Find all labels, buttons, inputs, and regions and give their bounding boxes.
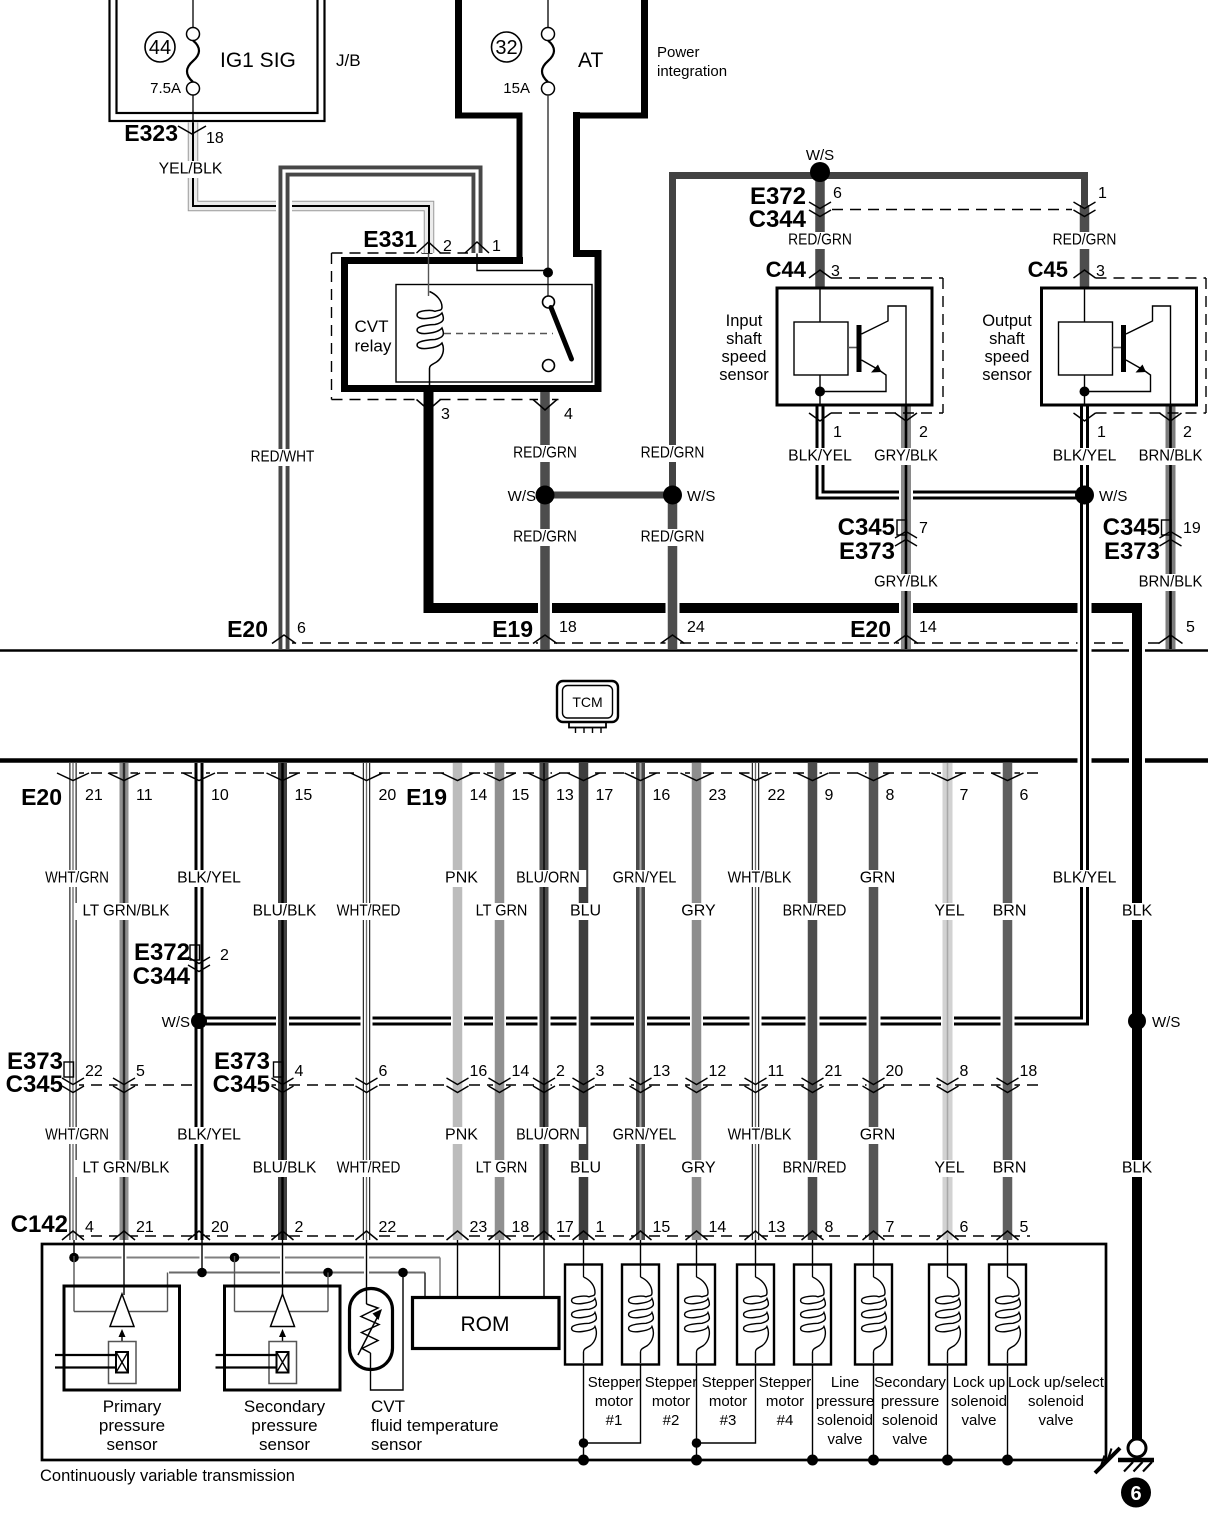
svg-text:7: 7 xyxy=(886,1219,895,1236)
wire YEL to lockup solenoid xyxy=(945,1240,950,1266)
wire label BLU (lower) xyxy=(567,1160,604,1177)
svg-text:8: 8 xyxy=(825,1219,834,1236)
node gnd stepper34 xyxy=(691,1455,702,1466)
wire label GRY (lower) xyxy=(680,1160,717,1177)
svg-text:WHT/BLK: WHT/BLK xyxy=(728,870,792,887)
svg-text:valve: valve xyxy=(1038,1412,1073,1429)
svg-text:BLK/YEL: BLK/YEL xyxy=(1053,448,1117,465)
wire label PNK (upper) xyxy=(443,870,480,887)
svg-text:YEL/BLK: YEL/BLK xyxy=(159,161,223,178)
stepper motor #2 coil xyxy=(622,1265,659,1365)
C142 pin 21 xyxy=(113,1231,135,1240)
node stepper34 xyxy=(692,1438,702,1448)
C142 pin 1 xyxy=(573,1231,595,1240)
wire label WHT/GRN (lower) xyxy=(39,1127,115,1144)
wire label LT GRN/BLK (lower) xyxy=(75,1160,178,1177)
wire BLU/BLK TCM 15 to C142 2 xyxy=(276,763,289,1240)
connector row E20/E19 dashed line (top section) xyxy=(284,642,1170,644)
E373/C345 row pin 14 xyxy=(489,1078,511,1085)
wire YEL/BLK E323 to E331 pin2 xyxy=(193,123,429,254)
svg-text:Power: Power xyxy=(657,44,700,61)
svg-text:E20: E20 xyxy=(21,784,62,810)
svg-text:#1: #1 xyxy=(606,1412,623,1429)
E20/E19 lower row pin 21 xyxy=(57,773,89,781)
wire BRN/RED to line pressure solenoid xyxy=(810,1240,815,1266)
wire WHT/GRN TCM 21 to C142 4 xyxy=(67,763,79,1240)
wire label GRN (upper) xyxy=(859,870,896,887)
wire label WHT/BLK (upper) xyxy=(721,870,797,887)
svg-text:21: 21 xyxy=(85,787,103,804)
svg-text:BLU: BLU xyxy=(570,1160,601,1177)
svg-text:sensor: sensor xyxy=(106,1435,157,1454)
wire WHT/BLK to stepper4 xyxy=(753,1240,758,1266)
wire label BLU/BLK (lower) xyxy=(246,1160,322,1177)
wire BLK/YEL TCM 10 to C142 20 xyxy=(192,763,206,1240)
speed sensor C45 dashed connector box xyxy=(1096,277,1207,279)
wire label WHT/RED (lower) xyxy=(330,1160,406,1177)
node gnd line pressure xyxy=(807,1455,818,1466)
svg-text:Secondary: Secondary xyxy=(244,1397,326,1416)
svg-text:W/S: W/S xyxy=(162,1014,190,1031)
E20/E19 lower row pin 15 xyxy=(484,773,516,781)
svg-text:Output: Output xyxy=(982,312,1032,330)
wire GRN/YEL TCM 16 to C142 15 xyxy=(634,763,647,1240)
stepper2 ground wire xyxy=(584,1364,641,1443)
wire label GRN/YEL (lower) xyxy=(606,1127,682,1144)
svg-text:3: 3 xyxy=(1096,263,1105,280)
wire BRN/RED TCM 9 to C142 8 xyxy=(806,763,820,1240)
CVT relay connector E331 dashed box xyxy=(331,253,333,400)
svg-text:E372: E372 xyxy=(134,939,190,966)
C142 pin 14 xyxy=(686,1231,708,1240)
E331 pin 3 xyxy=(417,400,441,411)
svg-text:C345: C345 xyxy=(6,1071,63,1098)
wire WHT/RED to temp sensor xyxy=(364,1240,369,1304)
wire label BRN/RED (lower) xyxy=(776,1160,852,1177)
E331 pin 1 xyxy=(465,242,489,253)
svg-text:W/S: W/S xyxy=(508,488,536,505)
svg-text:14: 14 xyxy=(512,1063,530,1080)
svg-text:ROM: ROM xyxy=(461,1313,510,1336)
svg-text:18: 18 xyxy=(512,1219,530,1236)
svg-text:12: 12 xyxy=(709,1063,727,1080)
svg-text:Stepper: Stepper xyxy=(759,1374,812,1391)
wire label YEL (lower) xyxy=(931,1160,968,1177)
CVT relay inner box xyxy=(396,285,592,383)
ground symbol G6 xyxy=(1128,1439,1146,1457)
svg-text:Primary: Primary xyxy=(103,1397,162,1416)
fuse 32 circle xyxy=(492,32,522,62)
E20/E19 lower row pin 11 xyxy=(108,773,140,781)
svg-text:valve: valve xyxy=(827,1431,862,1448)
svg-text:sensor: sensor xyxy=(982,366,1032,384)
svg-text:Input: Input xyxy=(726,312,763,330)
svg-text:GRY/BLK: GRY/BLK xyxy=(874,574,938,591)
svg-text:pressure: pressure xyxy=(251,1416,317,1435)
svg-text:2: 2 xyxy=(919,424,928,441)
secondary pressure sensor xyxy=(216,1256,341,1390)
wire RED/GRN to C45 pin3 xyxy=(1078,205,1092,288)
svg-text:E20: E20 xyxy=(850,616,891,642)
svg-text:4: 4 xyxy=(85,1219,94,1236)
TCM module U-TCM xyxy=(557,681,618,722)
svg-text:RED/GRN: RED/GRN xyxy=(788,232,852,249)
svg-text:C344: C344 xyxy=(133,963,191,990)
C142 pin 13 xyxy=(745,1231,767,1240)
svg-text:BLU/BLK: BLU/BLK xyxy=(253,1160,317,1177)
wire label BRN/BLK lower xyxy=(1132,574,1208,591)
connector row E373/C345 dashed line xyxy=(73,1084,1040,1086)
C45 pin 2 xyxy=(1160,413,1182,421)
wire label BLK lower xyxy=(1119,1160,1156,1177)
svg-text:1: 1 xyxy=(833,424,842,441)
svg-text:15: 15 xyxy=(653,1219,671,1236)
E20/E19 lower row pin 7 xyxy=(932,773,964,781)
input shaft speed sensor U-C44 xyxy=(777,288,932,405)
svg-text:BLU/ORN: BLU/ORN xyxy=(516,1127,580,1144)
svg-text:Stepper: Stepper xyxy=(588,1374,641,1391)
svg-text:GRN: GRN xyxy=(860,1127,896,1144)
svg-text:C345: C345 xyxy=(838,514,895,541)
wire label LT GRN (upper) xyxy=(470,903,533,920)
wire label BRN/RED (upper) xyxy=(776,903,852,920)
svg-text:pressure: pressure xyxy=(881,1393,939,1410)
E373/C345 row pin 2 xyxy=(533,1078,555,1085)
svg-text:Stepper: Stepper xyxy=(702,1374,755,1391)
svg-text:pressure: pressure xyxy=(99,1416,165,1435)
svg-text:BRN: BRN xyxy=(993,1160,1027,1177)
wire labels RED/GRN column1 xyxy=(507,445,583,462)
svg-text:RED/GRN: RED/GRN xyxy=(641,445,705,462)
svg-text:sensor: sensor xyxy=(719,366,769,384)
svg-text:solenoid: solenoid xyxy=(1028,1393,1084,1410)
svg-text:23: 23 xyxy=(709,787,727,804)
C142 pin 20 xyxy=(188,1231,210,1240)
wire label GRY (upper) xyxy=(680,903,717,920)
svg-text:E373: E373 xyxy=(1104,538,1160,565)
svg-text:6: 6 xyxy=(297,620,306,637)
svg-text:7.5A: 7.5A xyxy=(150,80,181,97)
svg-text:shaft: shaft xyxy=(989,330,1025,348)
svg-text:WHT/RED: WHT/RED xyxy=(337,1160,401,1177)
CVT fluid temperature sensor xyxy=(350,1274,404,1390)
E373/C345 row pin 13 xyxy=(630,1078,652,1085)
svg-text:18: 18 xyxy=(1020,1063,1038,1080)
svg-text:8: 8 xyxy=(960,1063,969,1080)
svg-text:solenoid: solenoid xyxy=(882,1412,938,1429)
svg-text:4: 4 xyxy=(295,1063,304,1080)
svg-text:8: 8 xyxy=(886,787,895,804)
svg-text:GRY: GRY xyxy=(681,1160,716,1177)
node stepper12 xyxy=(579,1438,589,1448)
svg-text:YEL: YEL xyxy=(934,903,964,920)
svg-text:11: 11 xyxy=(768,1063,785,1080)
E373/C345 row pin 4 xyxy=(272,1078,294,1085)
svg-text:17: 17 xyxy=(556,1219,574,1236)
svg-text:motor: motor xyxy=(709,1393,747,1410)
svg-text:22: 22 xyxy=(85,1063,103,1080)
svg-text:5: 5 xyxy=(1186,619,1195,636)
node W/S right xyxy=(663,486,682,505)
svg-text:C45: C45 xyxy=(1028,257,1068,282)
power integration bus left outer leg xyxy=(455,0,462,119)
svg-text:#4: #4 xyxy=(777,1412,794,1429)
wire label GRY/BLK lower xyxy=(868,574,944,591)
wire label BRN (upper) xyxy=(991,903,1028,920)
svg-text:Lock up/select: Lock up/select xyxy=(1008,1374,1105,1391)
svg-text:E323: E323 xyxy=(124,120,178,146)
svg-text:TCM: TCM xyxy=(572,694,602,710)
wire label BLK/YEL C44 xyxy=(782,448,858,465)
svg-text:E19: E19 xyxy=(492,616,533,642)
wire WHT/GRN into box xyxy=(72,1240,77,1258)
wire BLK relay pin3 bus to ground xyxy=(429,392,1138,1439)
secondary pressure solenoid coil xyxy=(855,1265,892,1365)
wire LT GRN to ROM xyxy=(497,1240,502,1298)
svg-text:AT: AT xyxy=(578,49,603,72)
C142 pin 15 xyxy=(630,1231,652,1240)
svg-text:20: 20 xyxy=(886,1063,904,1080)
svg-text:11: 11 xyxy=(136,787,153,804)
svg-text:#3: #3 xyxy=(720,1412,737,1429)
svg-text:22: 22 xyxy=(379,1219,397,1236)
wire BLU/BLK to secondary sensor xyxy=(280,1240,285,1295)
node W/S splice right (on BLK wire) xyxy=(1128,1012,1146,1030)
lock up/select solenoid coil xyxy=(989,1265,1026,1365)
lockup select solenoid ground wire xyxy=(1005,1364,1010,1460)
C142 pin 2 xyxy=(272,1231,294,1240)
E373/C345 row pin 11 xyxy=(745,1078,767,1085)
svg-text:IG1 SIG: IG1 SIG xyxy=(220,49,296,72)
E20/E19 lower row pin 14 xyxy=(442,773,474,781)
C142 pin 23 xyxy=(447,1231,469,1240)
ground splice arrow xyxy=(1095,1448,1120,1473)
svg-text:BRN/BLK: BRN/BLK xyxy=(1139,574,1203,591)
svg-text:W/S: W/S xyxy=(1099,488,1127,505)
svg-text:PNK: PNK xyxy=(445,1127,478,1144)
svg-text:18: 18 xyxy=(559,619,577,636)
output shaft speed sensor U-C45 xyxy=(1042,288,1197,405)
E373/C345 row pin 22 xyxy=(62,1078,84,1085)
E20/E19 lower row pin 10 xyxy=(183,773,215,781)
primary pressure sensor xyxy=(55,1256,180,1390)
wire label BLK right column xyxy=(1119,903,1156,920)
connector E373/C345 (second) xyxy=(206,1050,272,1096)
svg-text:2: 2 xyxy=(556,1063,565,1080)
wire W/S link between RED/GRN wires xyxy=(545,489,673,501)
node W/S top xyxy=(810,162,830,182)
stepper motor #3 coil xyxy=(678,1265,715,1365)
node W/S sensors xyxy=(1075,486,1094,505)
wire label GRN (lower) xyxy=(859,1127,896,1144)
svg-text:WHT/GRN: WHT/GRN xyxy=(45,870,109,887)
gray bus line 1 (WHT/GRN) inside CVT box xyxy=(76,1257,441,1259)
wire label BLK/YEL (lower) xyxy=(171,1127,247,1144)
svg-text:44: 44 xyxy=(149,37,171,59)
svg-text:Lock up: Lock up xyxy=(953,1374,1006,1391)
speed sensor C44 dashed connector box xyxy=(831,277,943,279)
node W/S left xyxy=(536,486,555,505)
node gnd stepper12 xyxy=(578,1455,589,1466)
continuously variable transmission box xyxy=(42,1244,1106,1460)
stepper3 ground wire xyxy=(694,1364,699,1460)
wire label GRY/BLK C44 xyxy=(868,448,944,465)
svg-text:18: 18 xyxy=(206,130,224,147)
svg-text:3: 3 xyxy=(831,263,840,280)
wire labels RED/GRN column2 xyxy=(634,445,710,462)
gray bus line 2 (BLK/YEL) inside CVT box xyxy=(169,1272,425,1274)
node bus2/secondary xyxy=(323,1268,333,1278)
svg-text:E331: E331 xyxy=(363,226,417,252)
node W/S splice left xyxy=(191,1013,207,1029)
wire LT GRN/BLK TCM 11 to C142 21 xyxy=(118,763,131,1240)
svg-text:2: 2 xyxy=(220,947,229,964)
wire label PNK (lower) xyxy=(443,1127,480,1144)
wire GRY TCM 23 to C142 14 xyxy=(690,763,703,1240)
ROM module xyxy=(413,1298,560,1349)
svg-text:2: 2 xyxy=(1183,424,1192,441)
svg-text:BLK/YEL: BLK/YEL xyxy=(177,870,241,887)
C142 pin 22 xyxy=(356,1231,378,1240)
svg-text:15: 15 xyxy=(295,787,313,804)
E20/E19 lower row pin 13 xyxy=(528,773,560,781)
node gnd secondary pressure xyxy=(868,1455,879,1466)
wire BLK/YEL junction down and across to E372/C344 pin2 xyxy=(199,495,1085,1021)
C142 pin 17 xyxy=(533,1231,555,1240)
E331 pin 2 xyxy=(417,242,441,253)
wire BLK/YEL C44 pin1 to junction xyxy=(820,405,1085,495)
svg-text:BLK: BLK xyxy=(1122,1160,1153,1177)
E373/C345 row pin 6 xyxy=(356,1078,378,1085)
power integration bus bottom-left edge xyxy=(455,113,523,119)
wire PNK to ROM xyxy=(455,1240,460,1298)
svg-text:PNK: PNK xyxy=(445,870,478,887)
relay switch contacts xyxy=(543,296,555,308)
fuse 44 circle xyxy=(145,32,175,62)
svg-text:motor: motor xyxy=(766,1393,804,1410)
svg-text:J/B: J/B xyxy=(336,51,361,70)
svg-text:BRN/RED: BRN/RED xyxy=(783,1160,847,1177)
svg-text:32: 32 xyxy=(495,37,517,59)
svg-text:LT GRN: LT GRN xyxy=(476,1160,528,1177)
wire label LT GRN (lower) xyxy=(470,1160,533,1177)
junction node relay pin1/fuse32 xyxy=(543,268,553,278)
E331 pin 4 xyxy=(533,400,557,411)
wire PNK TCM 14 to C142 23 xyxy=(451,763,464,1240)
svg-text:speed: speed xyxy=(722,348,767,366)
wire BRN to lockup select solenoid xyxy=(1005,1240,1010,1266)
relay coil wire from pin 2 xyxy=(428,254,430,297)
wire BLU/ORN TCM 13 to C142 17 xyxy=(538,763,551,1240)
C142 pin 18 xyxy=(489,1231,511,1240)
svg-text:4: 4 xyxy=(564,406,573,423)
stepper4 ground wire xyxy=(697,1364,756,1443)
stepper motor #1 coil xyxy=(565,1265,602,1365)
line pressure solenoid ground wire xyxy=(810,1364,815,1460)
C44 pin 1 xyxy=(809,413,831,421)
svg-text:6: 6 xyxy=(960,1219,969,1236)
svg-text:1: 1 xyxy=(1097,424,1106,441)
svg-text:E373: E373 xyxy=(839,538,895,565)
svg-text:10: 10 xyxy=(211,787,229,804)
svg-text:24: 24 xyxy=(687,619,705,636)
E20/E19 lower row pin 8 xyxy=(858,773,890,781)
svg-text:15: 15 xyxy=(512,787,530,804)
svg-text:#2: #2 xyxy=(663,1412,680,1429)
wire label RED/WHT xyxy=(244,449,320,466)
svg-text:GRY: GRY xyxy=(681,903,716,920)
connector row E20 pin 5 xyxy=(1159,635,1183,644)
E373/C345 row pin 5 xyxy=(113,1078,135,1085)
C142 pin 7 xyxy=(863,1231,885,1240)
svg-text:BLK/YEL: BLK/YEL xyxy=(177,1127,241,1144)
C44 pin 2 xyxy=(895,413,917,421)
E20/E19 lower row pin 15 xyxy=(267,773,299,781)
wire RED/GRN W/S leg to E19-24 xyxy=(666,495,680,649)
fuse 32 element xyxy=(547,0,549,28)
relay coil-switch dashed link xyxy=(444,333,553,335)
svg-text:solenoid: solenoid xyxy=(951,1393,1007,1410)
node gnd lockup select xyxy=(1002,1455,1013,1466)
svg-text:7: 7 xyxy=(960,787,969,804)
wire label WHT/RED (upper) xyxy=(330,903,406,920)
connector E372/C344 pin 1 xyxy=(1074,202,1096,209)
wire label BLK/YEL right column xyxy=(1046,870,1122,887)
wire label YEL (upper) xyxy=(931,903,968,920)
svg-text:Secondary: Secondary xyxy=(874,1374,946,1391)
wire GRN to secondary pressure solenoid xyxy=(871,1240,876,1266)
svg-text:shaft: shaft xyxy=(726,330,762,348)
E20/E19 lower row pin 9 xyxy=(797,773,829,781)
svg-text:Continuously variable transmis: Continuously variable transmission xyxy=(40,1467,295,1485)
wire BRN/BLK C45 pin2 to E20-5 xyxy=(1164,405,1178,649)
svg-text:23: 23 xyxy=(470,1219,488,1236)
wire GRN TCM 8 to C142 7 xyxy=(867,763,881,1240)
svg-text:BRN/RED: BRN/RED xyxy=(783,903,847,920)
svg-text:BLU: BLU xyxy=(570,903,601,920)
relay coil xyxy=(417,292,443,389)
svg-text:BLU/BLK: BLU/BLK xyxy=(253,903,317,920)
wire BLK/YEL E19-10 to C142-20 xyxy=(192,763,206,1240)
svg-text:16: 16 xyxy=(470,1063,488,1080)
wire labels RED/GRN sensors xyxy=(782,232,858,249)
wire BLK/YEL to bus xyxy=(200,1240,205,1273)
svg-text:CVT: CVT xyxy=(355,317,389,336)
connector row C142 dashed line xyxy=(73,1235,1030,1237)
svg-text:RED/GRN: RED/GRN xyxy=(513,445,577,462)
wire label WHT/GRN (upper) xyxy=(39,870,115,887)
wire WHT/RED TCM 20 to C142 22 xyxy=(361,763,373,1240)
wire label BLK/YEL (upper) xyxy=(171,870,247,887)
CVT relay box outline xyxy=(345,261,524,393)
wire RED/GRN to C44 pin3 xyxy=(813,176,827,288)
lock up solenoid coil xyxy=(929,1265,966,1365)
svg-text:RED/GRN: RED/GRN xyxy=(513,529,577,546)
svg-text:RED/GRN: RED/GRN xyxy=(1053,232,1117,249)
wire BLU/ORN to ROM xyxy=(542,1240,547,1298)
bus drops into ROM xyxy=(424,1273,426,1298)
svg-text:WHT/GRN: WHT/GRN xyxy=(45,1127,109,1144)
wire label GRN/YEL (upper) xyxy=(606,870,682,887)
svg-text:relay: relay xyxy=(355,337,392,356)
wire label BLU/ORN (upper) xyxy=(510,870,586,887)
wire label WHT/BLK (lower) xyxy=(721,1127,797,1144)
C142 pin 4 xyxy=(62,1231,84,1240)
svg-text:21: 21 xyxy=(136,1219,154,1236)
separator line upper xyxy=(0,649,1208,652)
E373/C345 row pin 8 xyxy=(937,1078,959,1085)
svg-text:14: 14 xyxy=(709,1219,727,1236)
